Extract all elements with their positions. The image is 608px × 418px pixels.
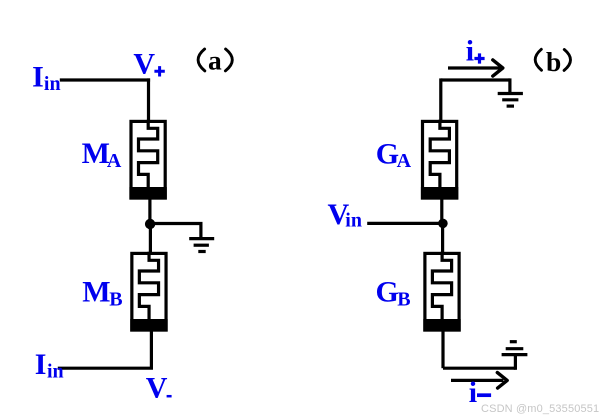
label V- bbox=[146, 371, 172, 404]
wire G_A to node bbox=[440, 198, 443, 224]
ground (a) bbox=[189, 239, 214, 252]
svg-text:Vin: Vin bbox=[328, 198, 362, 232]
memristor G_A bbox=[421, 120, 458, 200]
svg-text:MA: MA bbox=[82, 137, 122, 172]
ground (b) top bbox=[498, 94, 523, 107]
memristor M_B bbox=[130, 252, 167, 332]
svg-text:b: b bbox=[546, 46, 561, 77]
node (b) junction bbox=[438, 219, 448, 229]
wire bottom horizontal to I_in bbox=[58, 367, 153, 370]
svg-text:GB: GB bbox=[376, 276, 411, 311]
wire G_B to bottom corner bbox=[441, 330, 444, 368]
memristor M_A bbox=[129, 120, 166, 200]
current arrow i- bbox=[451, 373, 507, 389]
svg-text:GA: GA bbox=[376, 137, 412, 172]
ground (b) bottom (inverted) bbox=[502, 342, 528, 355]
wire (b) stub to top ground bbox=[508, 78, 511, 94]
current arrow i+ bbox=[448, 60, 503, 76]
svg-text:V: V bbox=[133, 48, 155, 81]
label (a) bbox=[198, 44, 232, 75]
wire M_A to node bbox=[148, 198, 151, 224]
wire I_in to V+ corner bbox=[60, 78, 150, 81]
svg-text:i: i bbox=[466, 35, 474, 68]
wire (b) top horizontal bbox=[441, 78, 510, 81]
svg-text:V: V bbox=[146, 371, 168, 404]
label i- bbox=[469, 376, 491, 409]
node (a) junction bbox=[145, 219, 155, 229]
wire node to ground (a) bbox=[150, 224, 201, 239]
label i+ bbox=[466, 35, 485, 68]
svg-text:Iin: Iin bbox=[32, 60, 60, 94]
wire V_in to node bbox=[367, 222, 443, 225]
svg-text:i: i bbox=[469, 376, 477, 409]
wire M_B to bottom corner bbox=[150, 330, 153, 368]
wire (b) bottom horizontal bbox=[443, 367, 515, 370]
wire node to M_B bbox=[149, 224, 152, 253]
wire (b) top left vertical to G_A bbox=[439, 78, 442, 121]
svg-text:CSDN @m0_53550551: CSDN @m0_53550551 bbox=[481, 403, 599, 415]
wire stub up to inverted ground bbox=[514, 355, 517, 370]
label V+ bbox=[133, 48, 164, 81]
svg-text:a: a bbox=[208, 44, 222, 75]
wire V+ vertical to M_A bbox=[147, 78, 150, 121]
memristor G_B bbox=[423, 252, 460, 332]
label (b) bbox=[535, 46, 570, 77]
wire node to G_B bbox=[441, 223, 444, 253]
svg-text:Iin: Iin bbox=[35, 348, 64, 382]
svg-text:MB: MB bbox=[82, 276, 122, 311]
